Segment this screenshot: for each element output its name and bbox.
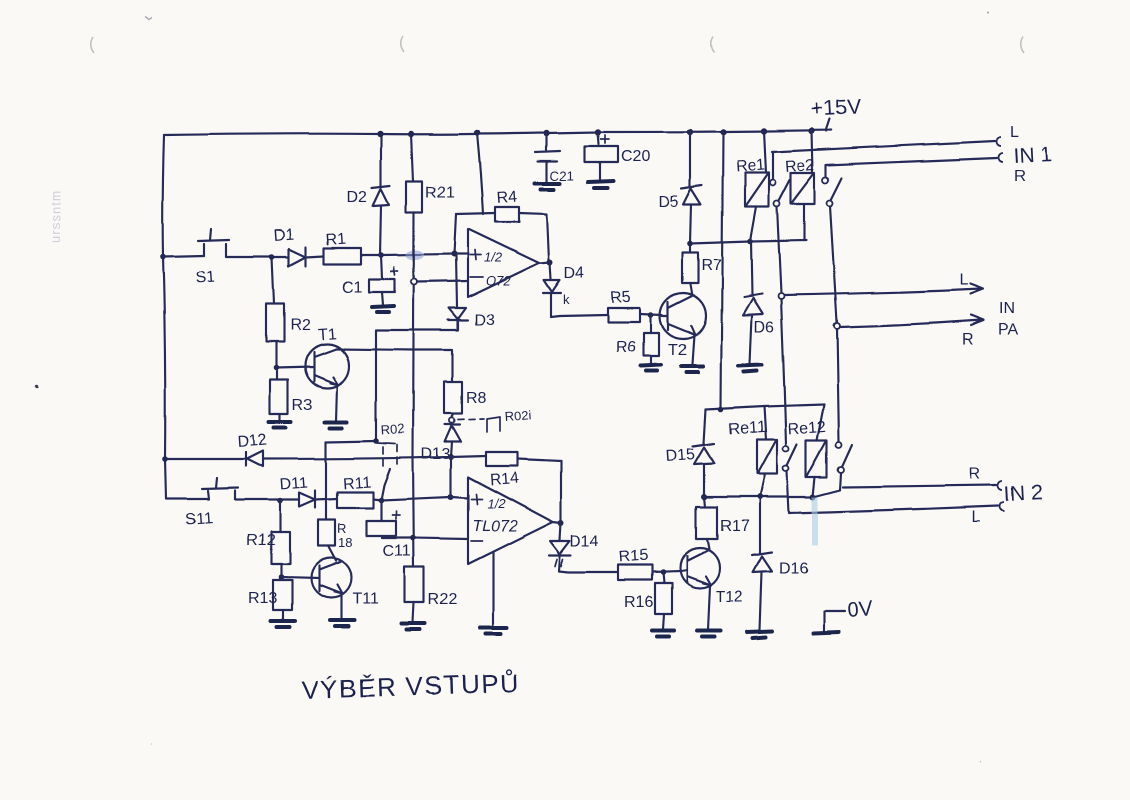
- wire output node: [539, 262, 550, 263]
- wire to opamp minus input: [417, 281, 468, 282]
- diode D6: [743, 241, 763, 364]
- svg-text:R21: R21: [425, 184, 454, 201]
- ground below T12: [697, 631, 721, 637]
- diode D3: [376, 308, 468, 440]
- diode D15: [693, 409, 714, 497]
- ground below R16: [652, 631, 674, 637]
- svg-text:R11: R11: [342, 474, 371, 493]
- relay Re1: [745, 131, 769, 241]
- svg-text:R1: R1: [325, 231, 347, 249]
- svg-text:D6: D6: [754, 319, 775, 336]
- svg-text:R7: R7: [701, 257, 722, 274]
- wire feedback top: [456, 213, 495, 214]
- wire IN1 L: [772, 141, 995, 152]
- resistor R3: [270, 368, 288, 421]
- resistor R02 dashed: [377, 443, 397, 500]
- wire feedback 2 down: [560, 461, 562, 522]
- svg-text:S11: S11: [185, 510, 214, 529]
- ground below R22: [402, 623, 425, 629]
- resistor R16: [655, 572, 672, 630]
- resistor R02i dashed: [458, 417, 500, 432]
- svg-text:1/2: 1/2: [487, 496, 506, 511]
- node on rail at D2: [377, 131, 383, 137]
- svg-text:T2: T2: [668, 342, 687, 359]
- transistor T1: [276, 344, 349, 421]
- ground below C1: [372, 306, 394, 312]
- wire lower common line: [704, 473, 841, 497]
- svg-text:Re2: Re2: [785, 157, 816, 176]
- paper specks: [35, 12, 989, 763]
- relay Re12: [806, 404, 827, 497]
- contact K1 upper lead: [772, 152, 774, 179]
- svg-text:S1: S1: [195, 269, 216, 287]
- node on rail at Re1: [761, 128, 767, 134]
- resistor R21: [406, 134, 422, 212]
- resistor R6: [644, 315, 659, 364]
- svg-text:Re11: Re11: [728, 418, 766, 438]
- resistor R14: [451, 452, 561, 466]
- svg-text:D16: D16: [779, 560, 808, 577]
- node R2 tap: [269, 254, 275, 260]
- svg-text:C1: C1: [342, 279, 363, 296]
- node R8/D13: [449, 414, 454, 424]
- node on rail at R21: [408, 131, 414, 137]
- wire left bus to S11: [166, 498, 209, 500]
- node left bus to S1: [160, 254, 166, 260]
- switch S1: [198, 229, 229, 257]
- transistor T12: [680, 548, 720, 630]
- wire D1 to R1: [306, 256, 324, 257]
- svg-text:R4: R4: [496, 189, 518, 207]
- node minus 2 at R22 line: [410, 535, 416, 541]
- ground below T11: [330, 620, 354, 626]
- resistor R2: [266, 257, 284, 368]
- capacitor C20: [585, 132, 618, 180]
- wire R4 to output: [519, 213, 549, 261]
- diode D14: [549, 523, 571, 571]
- svg-text:C21: C21: [550, 168, 574, 183]
- svg-text:C11: C11: [383, 543, 411, 560]
- diode D12: [246, 451, 263, 467]
- svg-text:R16: R16: [624, 594, 653, 611]
- svg-text:Re1: Re1: [735, 157, 766, 176]
- ink smudge: [406, 250, 424, 260]
- svg-text:D11: D11: [279, 475, 308, 494]
- wire U2 output: [553, 522, 561, 523]
- wire left vertical bus: [163, 135, 166, 499]
- ground below D6: [739, 365, 762, 372]
- node common at Re12: [810, 494, 816, 500]
- svg-text:IN: IN: [999, 300, 1015, 317]
- node R12 tap: [277, 498, 283, 504]
- switch S11: [202, 478, 238, 500]
- diode D13: [445, 425, 461, 457]
- svg-text:0V: 0V: [847, 597, 874, 622]
- node R6 tap: [648, 312, 654, 318]
- wire R1 to opamp: [361, 254, 454, 255]
- wire IN2 R: [843, 485, 996, 487]
- resistor R11: [315, 492, 373, 508]
- wire top +15V rail: [164, 119, 831, 135]
- op-amp U1 072: [468, 229, 539, 297]
- wire rail drop to feedback: [477, 133, 483, 214]
- svg-text:PA: PA: [998, 321, 1018, 338]
- svg-text:TL072: TL072: [472, 518, 517, 535]
- diode D1: [289, 247, 306, 266]
- ground below R13: [271, 621, 295, 627]
- resistor R17: [696, 497, 717, 549]
- 0V symbol: [813, 611, 845, 633]
- svg-text:C20: C20: [621, 148, 650, 165]
- node on rail at C20: [595, 129, 601, 135]
- wire R bus lower: [837, 329, 839, 442]
- node common at Re1/D6: [747, 238, 753, 244]
- resistor R12: [271, 501, 290, 577]
- svg-text:+15V: +15V: [811, 95, 862, 121]
- svg-text:IN 1: IN 1: [1013, 143, 1053, 168]
- wire D13 node to plus input: [450, 457, 452, 497]
- svg-text:D5: D5: [658, 194, 679, 211]
- svg-text:R3: R3: [292, 397, 313, 414]
- resistor R13: [273, 580, 292, 620]
- wire D12 line: [165, 458, 246, 460]
- transistor T11: [281, 558, 351, 619]
- resistor R5: [608, 308, 640, 322]
- diode D2: [372, 186, 390, 255]
- wire R15 to T12 base: [652, 571, 681, 572]
- capacitor C11: [366, 500, 400, 538]
- svg-text:R8: R8: [466, 390, 487, 407]
- terminal IN1 L: [997, 137, 1002, 146]
- node R16 tap: [660, 569, 666, 575]
- ground below R3: [269, 422, 291, 428]
- wire D2 from rail: [380, 135, 382, 187]
- wire plus input: [454, 253, 468, 255]
- svg-text:IN 2: IN 2: [1003, 481, 1043, 506]
- node common at R7/D5: [687, 240, 693, 246]
- node D13/R14: [448, 454, 454, 460]
- wire U2 tail to ground: [492, 552, 494, 626]
- wire plus input 2: [451, 497, 468, 498]
- svg-text:R13: R13: [248, 590, 277, 607]
- wire IN2 L: [787, 471, 998, 513]
- wire minus input 2: [382, 538, 468, 539]
- svg-text:D1: D1: [273, 227, 295, 245]
- svg-text:O72: O72: [486, 273, 511, 288]
- wire IN1 R: [826, 158, 997, 176]
- wire to S1: [163, 256, 204, 257]
- wire arrow R to PA: [840, 315, 984, 327]
- node on rail at C21: [543, 130, 549, 136]
- node on rail at R4 drop: [474, 130, 480, 136]
- wire D4 to R5: [551, 315, 608, 317]
- wire S1 to D1: [226, 256, 289, 258]
- svg-text:T11: T11: [352, 591, 378, 608]
- svg-text:D2: D2: [347, 189, 368, 206]
- resistor R1: [324, 248, 361, 264]
- wire R21 long vertical to R22: [413, 212, 414, 567]
- resistor R4: [495, 207, 519, 222]
- relay Re2: [791, 131, 815, 240]
- resistor R18: [318, 442, 336, 561]
- svg-text:D4: D4: [564, 265, 585, 282]
- ground below C20: [588, 181, 613, 188]
- transistor T2: [660, 284, 706, 364]
- contact K1: [770, 180, 790, 207]
- node output U1: [547, 259, 553, 265]
- svg-text:L: L: [959, 272, 968, 289]
- highlighter streak: [812, 497, 818, 545]
- node L bus: [778, 293, 784, 299]
- ground below T2: [681, 366, 703, 372]
- node common at D15/R17: [701, 494, 707, 500]
- node T11 base: [278, 574, 284, 580]
- diode D4: [543, 262, 561, 317]
- svg-text:R15: R15: [618, 547, 649, 566]
- terminal IN2 L: [1000, 502, 1005, 511]
- svg-text:R: R: [1014, 168, 1026, 185]
- node on rail at Re2: [809, 128, 815, 134]
- node U2 output: [558, 520, 564, 526]
- contact K11: [783, 444, 797, 471]
- svg-text:D13: D13: [421, 446, 450, 463]
- wire L bus down: [777, 207, 781, 293]
- node common at Re11/D16: [757, 494, 763, 500]
- wire D3 riser: [456, 256, 457, 307]
- wire D14 to R15: [559, 571, 618, 572]
- svg-text:D3: D3: [474, 312, 495, 329]
- capacitor C1: [369, 255, 398, 305]
- contact K12: [836, 442, 852, 473]
- svg-text:R12: R12: [246, 532, 275, 549]
- svg-text:R22: R22: [428, 591, 457, 608]
- wire S11 to D11: [235, 499, 299, 501]
- node on rail at D5: [687, 129, 693, 135]
- svg-text:Re12: Re12: [787, 418, 826, 438]
- ground below D16: [748, 631, 772, 638]
- svg-text:urssntm: urssntm: [48, 190, 63, 243]
- page curl marks: [91, 37, 1024, 53]
- ground below C21: [535, 183, 560, 189]
- wire feedback riser: [454, 214, 456, 254]
- node R02 top: [373, 438, 379, 444]
- svg-text:R: R: [969, 466, 981, 483]
- svg-text:R14: R14: [489, 470, 520, 489]
- wire R bus down: [830, 206, 837, 322]
- svg-text:D12: D12: [237, 432, 268, 451]
- resistor R8: [444, 382, 462, 414]
- terminal IN2 R: [998, 481, 1003, 490]
- ground below R6: [641, 365, 661, 371]
- svg-text:R6: R6: [616, 339, 637, 356]
- svg-text:D15: D15: [665, 446, 696, 465]
- wire L bus lower: [781, 299, 786, 444]
- wire relay common line: [690, 240, 806, 243]
- ground below U2: [480, 627, 507, 633]
- svg-text:T12: T12: [716, 589, 744, 606]
- ground below T1: [325, 422, 347, 428]
- terminal IN1 R: [999, 153, 1004, 162]
- svg-text:k: k: [563, 292, 570, 307]
- wire R5 to T2 base: [640, 314, 662, 315]
- node left bus to D12: [162, 456, 168, 462]
- wire +15V drop to lower relays: [721, 132, 723, 409]
- svg-text:L: L: [1010, 124, 1019, 141]
- svg-text:R: R: [337, 521, 346, 536]
- capacitor C21: [535, 133, 560, 181]
- svg-text:R02: R02: [380, 421, 405, 438]
- node supply at drop: [718, 406, 724, 412]
- node plus input 2: [448, 494, 454, 500]
- svg-text:T1: T1: [317, 326, 337, 344]
- node minus input tap: [411, 279, 417, 285]
- svg-text:L: L: [972, 509, 981, 526]
- svg-text:R17: R17: [720, 518, 749, 535]
- node on rail at lower relays drop: [720, 129, 726, 135]
- svg-text:R5: R5: [610, 289, 632, 307]
- node T1 base: [273, 365, 279, 371]
- node plus input junction: [451, 251, 457, 257]
- svg-text:R: R: [962, 331, 974, 348]
- resistor R15: [618, 565, 652, 580]
- svg-text:1/2: 1/2: [484, 250, 503, 265]
- wire R11 to plus input 2: [373, 497, 451, 500]
- diode D11: [299, 491, 315, 508]
- wire arrow L to PA: [784, 284, 983, 295]
- op-amp U2 TL072: [468, 477, 553, 564]
- wire R18 top link: [326, 441, 376, 442]
- wire T1 collector line: [336, 349, 452, 382]
- relay Re11: [757, 406, 777, 497]
- resistor R7: [682, 243, 698, 283]
- svg-text:R2: R2: [290, 317, 311, 334]
- contact K2: [823, 177, 842, 206]
- resistor R22: [405, 567, 424, 622]
- node C1/D2 tap: [378, 252, 384, 258]
- diode D16: [752, 497, 772, 630]
- diode D5: [681, 132, 702, 243]
- wire lower relay supply line: [706, 404, 824, 409]
- svg-text:D14: D14: [570, 533, 599, 550]
- wire D12 to D13 node: [263, 457, 451, 459]
- svg-text:R02i: R02i: [504, 407, 532, 424]
- node R bus: [834, 323, 840, 329]
- node C11/R02 tap: [378, 497, 384, 503]
- svg-text:18: 18: [338, 535, 352, 550]
